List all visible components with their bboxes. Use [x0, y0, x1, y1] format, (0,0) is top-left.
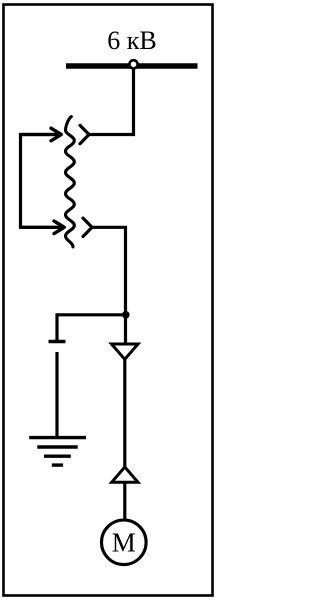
- motor M: [102, 520, 147, 565]
- wire: left loop connecting top and bottom pins: [21, 135, 61, 228]
- withdrawable unit boundary (wavy line): [66, 117, 75, 247]
- cable wire between terminations: [123, 360, 126, 468]
- ground: [29, 438, 86, 466]
- cable termination bottom (triangle, apex up): [112, 467, 138, 482]
- svg-text:М: М: [112, 528, 136, 558]
- contact socket top (chevron): [80, 125, 89, 143]
- wire: cable termination to motor: [123, 483, 126, 520]
- wire: gap electrode to ground: [55, 352, 58, 437]
- contact pin top (arrow): [21, 128, 62, 141]
- svg-text:6 кВ: 6 кВ: [107, 26, 156, 55]
- electrode plate (bar): [49, 340, 66, 343]
- cable termination top (triangle, apex down): [112, 344, 139, 359]
- wire: busbar down to top contact: [89, 66, 134, 135]
- wire: branch from junction to electrode: [57, 315, 126, 340]
- node on busbar (open circle): [129, 60, 137, 68]
- contact pin bottom (arrow): [21, 221, 65, 234]
- wire: bottom contact to junction and down to cable termination: [92, 227, 126, 344]
- busbar 6 кВ: [66, 63, 198, 69]
- junction node (dot): [122, 311, 130, 319]
- contact socket bottom (chevron): [83, 218, 92, 236]
